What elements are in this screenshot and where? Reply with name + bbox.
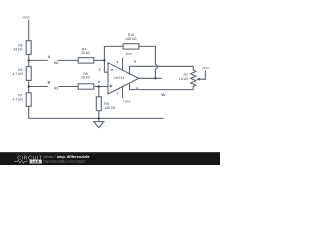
pin 4 stub to -Vcc [122, 58, 124, 70]
svg-text:33 kΩ: 33 kΩ [13, 47, 23, 51]
wire R9 bottom lead to ground bus [98, 111, 100, 119]
svg-text:5: 5 [134, 60, 136, 64]
resistor R7 4.7k (vertical box) [26, 93, 31, 107]
op-amp minus input marker [110, 69, 113, 71]
svg-text:100 kΩ: 100 kΩ [104, 106, 116, 110]
wire V1 to R8h [58, 86, 78, 88]
svg-text:100 kΩ: 100 kΩ [125, 37, 137, 41]
wire R8 bottom to node A to R6 top [28, 54, 30, 66]
svg-text:-Vcc: -Vcc [202, 66, 209, 70]
junction dot pin2/R10 [103, 59, 105, 61]
pin 5 stub and wire to pot top [130, 66, 194, 73]
resistor R8 20k (horizontal box) [78, 84, 94, 89]
svg-text:piccio / amp. differenziale: piccio / amp. differenziale [44, 154, 91, 159]
potentiometer R7 10k zigzag [191, 70, 196, 89]
wire jog down to op-amp pin 2 [104, 60, 108, 72]
resistor R10 100k (horizontal box) [123, 44, 139, 49]
resistor R4 20k (horizontal box) [78, 58, 94, 63]
wire R9 top lead [98, 87, 100, 97]
svg-text:+Vcc: +Vcc [123, 99, 131, 103]
ground symbol [98, 118, 100, 121]
svg-text:1: 1 [136, 86, 138, 90]
wire R7 bottom to bus corner [29, 106, 164, 118]
svg-text:V2: V2 [54, 61, 58, 65]
pin 1 stub and wire to pot bottom [130, 83, 194, 90]
svg-text:20 kΩ: 20 kΩ [81, 51, 91, 55]
wire node A right segment [29, 59, 48, 61]
svg-text:http://circuitlab.com/cv3gfq7: http://circuitlab.com/cv3gfq7 [44, 159, 86, 163]
junction dot node A [28, 59, 30, 61]
svg-text:LM741: LM741 [114, 76, 125, 80]
junction dot R9 top [98, 85, 100, 87]
wire V2 to R4 [58, 59, 79, 61]
watermark bar [0, 152, 220, 165]
svg-text:10 kΩ: 10 kΩ [179, 77, 189, 81]
wire R10 left lead down [104, 46, 123, 60]
wire R4 right to junction [94, 59, 105, 61]
resistor R6 4.7k (vertical box) [26, 67, 31, 81]
+Vcc supply flag (left chain) [28, 20, 30, 41]
resistor R8 33k (vertical box) [26, 41, 31, 55]
pot wiper to -Vcc [199, 70, 205, 79]
pin 7 stub to +Vcc [122, 87, 124, 99]
svg-text:Vo: Vo [161, 93, 165, 97]
junction dot node B [28, 85, 30, 87]
wiper arrowhead [196, 78, 200, 81]
wire R10 right lead to output, with hop over pin5 wire [139, 46, 156, 64]
svg-text:-Vcc: -Vcc [125, 52, 132, 56]
resistor R9 100k (vertical box) [96, 97, 101, 111]
wire op-amp output [139, 77, 162, 79]
svg-text:3: 3 [98, 80, 100, 84]
svg-text:4.7 kΩ: 4.7 kΩ [12, 98, 23, 102]
svg-text:2: 2 [99, 67, 101, 71]
wire R8h right to op-amp pin 3 [94, 86, 108, 88]
svg-text:20 kΩ: 20 kΩ [81, 76, 91, 80]
op-amp plus input marker [109, 85, 112, 87]
wire node B right segment [29, 86, 48, 88]
junction dot ground bus [98, 117, 100, 119]
op-amp U1 LM741 triangle [108, 63, 139, 94]
svg-text:4: 4 [116, 60, 118, 64]
svg-text:7: 7 [117, 92, 119, 96]
svg-text:+Vcc: +Vcc [22, 15, 30, 19]
svg-text:4.7 kΩ: 4.7 kΩ [12, 72, 23, 76]
wire R6 bottom to node B to R7 top [28, 80, 30, 92]
junction dot output/R10 [154, 77, 156, 79]
svg-text:LAB: LAB [32, 160, 40, 164]
svg-text:V1: V1 [54, 87, 58, 91]
